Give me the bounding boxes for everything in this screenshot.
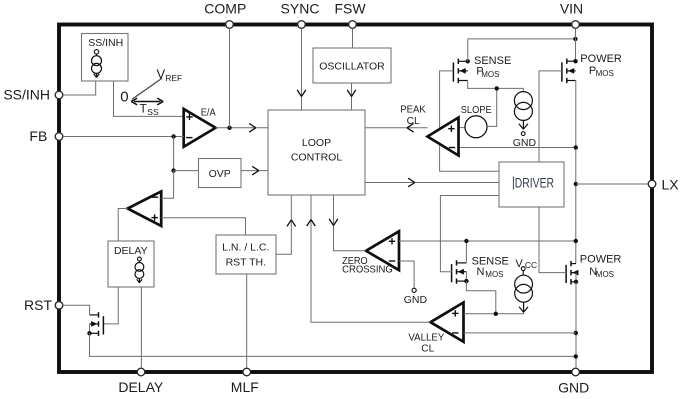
wire POWER NMOS source to GND pin	[575, 282, 577, 368]
svg-text:CL: CL	[407, 116, 420, 127]
transistor SENSE PMOS	[453, 55, 511, 83]
node SENSE PMOS source junction	[466, 59, 470, 63]
wire DELAY block to RST pull-down gate	[103, 287, 118, 324]
wire ZERO CROSSING inverting input to ground	[399, 261, 414, 288]
node OVP input junction	[171, 168, 175, 172]
wire L.N./L.C. block to MLF pin	[246, 274, 248, 368]
svg-text:POWER: POWER	[580, 53, 622, 65]
pin LX	[648, 176, 679, 192]
pin GND	[558, 368, 589, 395]
wire OSCILLATOR output to LOOP CONTROL	[347, 83, 356, 110]
node LX junction	[574, 182, 578, 186]
wire PEAK CL non-inverting input to SLOPE	[459, 127, 466, 129]
transistor SENSE NMOS	[452, 256, 509, 284]
svg-text:SS/INH: SS/INH	[88, 37, 123, 49]
svg-text:GND: GND	[404, 294, 428, 306]
wire COMP pin to E/A output	[229, 29, 231, 128]
svg-text:VALLEY: VALLEY	[408, 332, 444, 343]
svg-text:COMP: COMP	[204, 0, 246, 16]
pin SS/INH	[3, 87, 62, 103]
label 0	[120, 88, 128, 105]
svg-text:FB: FB	[29, 128, 47, 144]
wire pull-down body to source	[89, 324, 91, 333]
node pull-down source junction	[87, 331, 91, 335]
wire PEAK CL output to LOOP CONTROL	[365, 124, 428, 133]
svg-text:GND: GND	[513, 137, 537, 149]
wire E/A output to LOOP CONTROL	[216, 124, 268, 133]
wire SENSE NMOS body tie	[465, 272, 467, 281]
node POWER PMOS source junction	[573, 59, 577, 63]
wire VIN rail to SENSE PMOS source	[468, 39, 576, 61]
node ground bus junction	[574, 354, 578, 358]
block SS/INH	[82, 34, 129, 82]
transistor RST pull-down NMOS	[90, 312, 104, 336]
wire SENSE NMOS gate to DRIVER	[440, 196, 499, 272]
soft-start time axis T_SS double arrow	[131, 98, 163, 117]
node FB junction	[171, 134, 175, 138]
pin VIN	[560, 0, 583, 28]
svg-text:DRIVER: DRIVER	[515, 175, 554, 190]
current source VCC bias	[515, 275, 533, 312]
block DELAY	[108, 241, 154, 287]
wire OVP node to OVP block	[174, 170, 199, 172]
wire SS/INH block to E/A non-inverting input	[114, 81, 184, 116]
node E/A output junction	[227, 126, 231, 130]
block LOOP CONTROL	[268, 110, 365, 195]
pin SYNC	[281, 0, 320, 28]
comparator RST	[128, 191, 162, 226]
supply terminal VCC	[515, 258, 537, 275]
wire SYNC pin to LOOP CONTROL	[297, 29, 306, 110]
svg-text:0: 0	[120, 88, 128, 105]
wire pull-down source to ground bus	[90, 333, 576, 356]
wire SENSE NMOS drain to LX sense line	[465, 241, 467, 263]
wire LOOP CONTROL to ZERO CROSSING	[329, 195, 366, 251]
block L.N./L.C. RST TH.	[216, 235, 276, 274]
svg-text:SLOPE: SLOPE	[461, 105, 492, 116]
wire PEAK CL inverting input to LX sense	[459, 147, 576, 149]
wire SLOPE to sense node	[487, 88, 497, 126]
wire RST pin to pull-down drain	[63, 305, 90, 315]
comparator PEAK CL	[400, 104, 458, 155]
wire VALLEY CL output to LOOP CONTROL	[307, 195, 431, 322]
wire RST comparator output to DELAY block	[118, 209, 127, 242]
node SENSE NMOS drain junction	[464, 239, 468, 243]
transistor POWER PMOS	[562, 53, 622, 83]
current source I-SSINH inside SS/INH block	[92, 50, 102, 78]
soft-start ramp V_REF	[132, 67, 182, 100]
svg-text:REF: REF	[165, 73, 182, 83]
svg-text:T: T	[140, 102, 148, 116]
wire L.N./L.C. output to LOOP CONTROL	[276, 195, 296, 254]
svg-text:LOOP: LOOP	[302, 137, 331, 149]
node LX-sense junction	[574, 145, 578, 149]
wire SENSE PMOS gate to DRIVER	[440, 71, 499, 171]
op-amp E/A	[184, 106, 216, 146]
svg-text:OSCILLATOR: OSCILLATOR	[319, 60, 385, 72]
svg-text:SS/INH: SS/INH	[3, 87, 50, 103]
svg-text:L.N. / L.C.: L.N. / L.C.	[222, 241, 269, 253]
current source slope ramp generator	[514, 92, 532, 130]
ground symbol at ZERO CROSSING input	[404, 288, 428, 306]
svg-text:E/A: E/A	[201, 106, 216, 118]
wire FB pin to E/A inverting input	[63, 136, 184, 138]
node POWER NMOS source junction	[574, 280, 578, 284]
comparator VALLEY CL	[408, 303, 463, 355]
svg-text:SS: SS	[147, 107, 159, 117]
svg-text:CL: CL	[421, 344, 434, 355]
IC boundary	[59, 25, 652, 373]
wire DRIVER to POWER NMOS gate	[539, 207, 566, 273]
wire POWER PMOS gate to DRIVER	[539, 71, 562, 162]
svg-text:FSW: FSW	[334, 0, 366, 16]
wire LOOP CONTROL to DRIVER	[365, 178, 499, 187]
svg-text:LX: LX	[662, 176, 680, 192]
wire FSW pin to OSCILLATOR	[352, 29, 354, 48]
svg-text:N: N	[477, 266, 485, 278]
wire ZERO CROSSING non-inverting input to LX sense	[399, 240, 576, 242]
node VALLEY CL reference junction	[574, 331, 578, 335]
current source I-DELAY inside DELAY block	[135, 257, 144, 283]
wire FB node to OVP input	[173, 137, 175, 171]
pin RST	[24, 297, 63, 313]
node SENSE NMOS source junction	[464, 279, 468, 283]
block OVP	[199, 159, 242, 188]
transistor POWER NMOS	[566, 253, 621, 284]
svg-text:CROSSING: CROSSING	[342, 265, 393, 276]
svg-text:MLF: MLF	[231, 379, 259, 395]
svg-text:DELAY: DELAY	[118, 379, 164, 395]
svg-text:DELAY: DELAY	[114, 245, 148, 257]
wire POWER NMOS body tie	[575, 273, 577, 282]
svg-text:V: V	[157, 67, 166, 82]
svg-text:MOS: MOS	[485, 270, 503, 279]
svg-text:PEAK: PEAK	[400, 104, 425, 115]
wire OVP output to LOOP CONTROL	[241, 166, 268, 175]
wire SENSE PMOS drain to slope current source	[468, 81, 524, 92]
wire SS/INH pin to SS/INH block	[63, 81, 96, 95]
wire LX node to LX pin	[576, 183, 648, 185]
wire VCC current source to VALLEY CL input node	[523, 312, 525, 314]
svg-text:VIN: VIN	[560, 0, 583, 16]
svg-text:MOS: MOS	[596, 270, 614, 279]
wire OVP node to RST comparator inverting input	[161, 171, 173, 199]
svg-text:SYNC: SYNC	[281, 0, 320, 16]
svg-text:CC: CC	[525, 260, 537, 270]
block DRIVER	[499, 162, 564, 207]
svg-text:MOS: MOS	[596, 69, 614, 78]
wire DELAY block to DELAY pin	[140, 287, 142, 368]
comparator ZERO CROSSING	[342, 231, 399, 275]
svg-text:OVP: OVP	[209, 168, 231, 180]
slope compensation block SLOPE	[461, 105, 492, 138]
pin DELAY	[118, 368, 164, 395]
block OSCILLATOR	[313, 48, 391, 83]
svg-text:GND: GND	[558, 380, 589, 396]
pin COMP	[204, 0, 246, 28]
wire POWER PMOS drain to LX node	[575, 81, 577, 264]
pin FB	[29, 128, 62, 144]
ground terminal of slope current source	[513, 132, 537, 149]
svg-text:CONTROL: CONTROL	[291, 151, 342, 163]
pin FSW	[334, 0, 366, 28]
svg-text:RST: RST	[24, 297, 52, 313]
svg-text:RST TH.: RST TH.	[226, 257, 266, 269]
wire RST comparator non-inverting input to L.N./L.C. block	[161, 218, 245, 235]
node VALLEY CL input junction	[494, 312, 498, 316]
wire VALLEY CL non-inverting input node	[464, 313, 524, 315]
svg-text:MOS: MOS	[481, 70, 499, 79]
wire SENSE NMOS source to VALLEY CL input	[466, 281, 495, 314]
pin MLF	[231, 368, 259, 395]
wire VALLEY CL inverting input to ground node	[464, 332, 576, 334]
node VIN rail junction	[573, 37, 577, 41]
wire VIN pin to POWER PMOS source	[575, 29, 577, 62]
svg-text:POWER: POWER	[580, 253, 622, 265]
node POWER NMOS drain junction	[574, 239, 578, 243]
node slope-node junction	[495, 86, 499, 90]
